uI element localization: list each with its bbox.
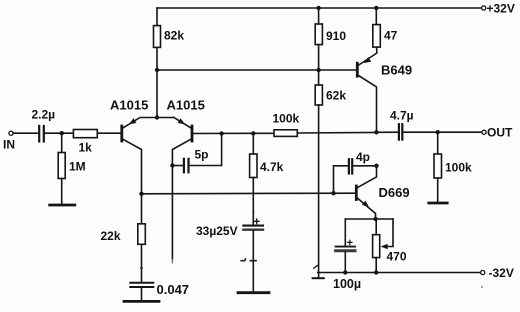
- capacitor C 4p right plate: [351, 159, 353, 173]
- wire 100u bottom lead: [344, 252, 346, 272]
- wire emitter node horizontal: [345, 218, 393, 220]
- resistor R 62k: [315, 85, 322, 105]
- wire 82k riser top: [156, 8, 158, 26]
- resistor R 100k feedback: [274, 130, 297, 137]
- node 100k load top: [436, 130, 440, 134]
- wire 0.047 bottom lead: [141, 288, 143, 300]
- svg-text:100k: 100k: [445, 161, 472, 175]
- node 4.7k top: [251, 131, 255, 135]
- svg-text:82k: 82k: [164, 29, 184, 43]
- artifact plus near 33u: [250, 260, 256, 262]
- resistor R 100k load: [434, 154, 442, 178]
- terminal -32V: [481, 270, 485, 274]
- capacitor C 5p right plate: [187, 159, 189, 173]
- wire 1M bottom lead: [61, 179, 63, 204]
- wire 82k bottom lead: [156, 47, 158, 70]
- svg-text:A1015: A1015: [167, 98, 205, 113]
- svg-text:OUT: OUT: [487, 126, 513, 140]
- resistor R 470 trimmer: [373, 235, 380, 258]
- wire 100u top lead: [344, 219, 346, 246]
- wire 910 top lead: [318, 8, 320, 24]
- capacitor C 33u25V top plate: [243, 225, 263, 227]
- node 910/62k/B649 base: [316, 68, 320, 72]
- wire to 5p left plate: [172, 165, 183, 167]
- blob artifact on 22k lead: [140, 267, 143, 270]
- capacitor C 4p left plate: [348, 159, 350, 173]
- wire top +32V rail: [157, 7, 482, 9]
- wire 62k long lead to -32V rail: [318, 105, 320, 278]
- node input bias junction: [60, 131, 64, 135]
- wire C1 to 1k: [45, 132, 74, 134]
- node top rail / 47: [374, 6, 378, 10]
- svg-text:1M: 1M: [69, 160, 86, 174]
- rail left end bar bottom: [313, 277, 324, 279]
- wire emitter rail horizontal: [157, 69, 357, 71]
- wire output node to 4.7u: [377, 131, 399, 133]
- capacitor C 100u top plate: [336, 246, 355, 248]
- wire emitters horizontal: [157, 117, 174, 119]
- capacitor C 5p left plate: [183, 159, 185, 173]
- wire wiper arm: [383, 219, 393, 247]
- blob artifact on 4.7k lead: [252, 211, 254, 213]
- node 82k/emitter-rail junction: [155, 68, 159, 72]
- node top rail / 910: [316, 6, 320, 10]
- transistor Q3 B649 base bar: [356, 63, 359, 76]
- wire 100k load top lead: [437, 132, 439, 154]
- svg-text:0.047: 0.047: [157, 282, 190, 297]
- svg-text:D669: D669: [379, 185, 410, 200]
- transistor Q4 D669 collector lead: [358, 166, 377, 188]
- ground for 1M: [50, 204, 75, 207]
- svg-text:A1015: A1015: [110, 98, 148, 113]
- wire 33u bottom lead: [252, 231, 254, 291]
- transistor Q2 A1015 collector lead: [172, 139, 192, 260]
- svg-text:470: 470: [387, 250, 407, 264]
- terminal IN: [9, 131, 13, 135]
- wire D669 base line: [142, 192, 357, 195]
- terminal OUT: [482, 130, 486, 134]
- capacitor C 0.047 top plate: [130, 282, 153, 284]
- node 5p left / Q2 collector: [170, 163, 174, 167]
- transistor Q1 A1015 emitter lead: [122, 118, 157, 129]
- node 4p right / D669 collector: [374, 164, 378, 168]
- wire 47 top lead: [375, 8, 377, 25]
- svg-text:33µ25V: 33µ25V: [196, 224, 238, 238]
- svg-text:+32V: +32V: [487, 1, 515, 15]
- transistor Q3 B649 emitter lead: [358, 47, 377, 65]
- svg-text:910: 910: [326, 29, 346, 43]
- wire 1k to Q1 base: [97, 132, 121, 134]
- transistor Q1 A1015 emitter arrow: [129, 118, 136, 124]
- ground for 33u: [238, 291, 269, 294]
- capacitor C 100u plus sign: [348, 240, 352, 244]
- svg-text:100k: 100k: [273, 112, 300, 126]
- capacitor C 33u25V plus sign: [254, 219, 259, 224]
- wire 22k bottom lead: [141, 244, 143, 282]
- wire 100k load bottom lead: [437, 178, 439, 202]
- node 100u / rail: [343, 270, 347, 274]
- svg-text:100µ: 100µ: [333, 277, 361, 291]
- ground for 100k load: [429, 202, 447, 205]
- wire riser to emitters: [156, 70, 158, 118]
- transistor Q4 D669 base bar: [355, 186, 358, 200]
- terminal +32V: [482, 6, 486, 10]
- wire 4.7k bottom to 33u: [252, 178, 254, 225]
- capacitor C 33u25V bottom plate: [243, 228, 263, 230]
- svg-text:22k: 22k: [101, 229, 121, 243]
- resistor R 22k: [138, 224, 146, 245]
- svg-text:4.7µ: 4.7µ: [390, 109, 414, 123]
- wire 4p left lead: [334, 166, 349, 193]
- wire IN to C1: [13, 132, 38, 134]
- svg-text:4p: 4p: [356, 150, 370, 164]
- wire 1M top lead: [61, 133, 63, 152]
- capacitor C 0.047 bottom plate: [130, 286, 153, 288]
- wire 470 bottom lead: [375, 258, 377, 273]
- transistor Q1 A1015 base bar: [120, 126, 123, 141]
- transistor Q1 A1015 collector lead: [122, 139, 142, 224]
- artifact dash near 33u: [241, 259, 245, 261]
- wire 5p right to base line: [189, 134, 221, 166]
- transistor Q3 B649 emitter arrow: [364, 57, 371, 63]
- svg-text:1k: 1k: [79, 141, 93, 155]
- svg-text:4.7k: 4.7k: [260, 160, 284, 174]
- wire 910 bottom lead: [318, 45, 320, 70]
- svg-text:5p: 5p: [195, 147, 209, 161]
- wire 62k top lead: [318, 70, 320, 85]
- node emitter junction: [373, 217, 377, 221]
- transistor Q2 A1015 emitter arrow: [178, 118, 185, 124]
- svg-text:-32V: -32V: [489, 266, 514, 280]
- node 5p tap: [219, 131, 223, 135]
- capacitor C 100u bottom plate: [336, 249, 355, 252]
- svg-text:2.2µ: 2.2µ: [32, 107, 56, 121]
- node output junction: [374, 130, 378, 134]
- ground for 0.047: [124, 300, 159, 303]
- capacitor C1 2.2u left plate: [38, 126, 40, 142]
- wiper arrow into 470: [381, 244, 388, 250]
- transistor Q2 A1015 base bar: [191, 126, 194, 141]
- wire 4.7k top lead: [252, 133, 254, 154]
- resistor R 47: [373, 25, 381, 47]
- node 4p left tap: [331, 191, 335, 195]
- wire 4p right lead: [353, 165, 376, 167]
- svg-text:47: 47: [384, 28, 398, 42]
- wire 100k to output node: [297, 131, 376, 134]
- svg-text:B649: B649: [381, 63, 412, 78]
- node 470 / rail: [374, 270, 378, 274]
- resistor R 910: [315, 24, 322, 45]
- resistor R 82k: [154, 26, 161, 48]
- transistor Q4 D669 emitter lead: [357, 198, 376, 219]
- wire Q2 collector fading tip: [171, 260, 173, 264]
- svg-text:62k: 62k: [326, 89, 346, 103]
- capacitor C 4.7u left plate: [398, 124, 400, 139]
- resistor R 4.7k: [250, 154, 257, 178]
- artifact dot bottom right: [481, 286, 483, 288]
- transistor Q4 D669 emitter arrow: [362, 201, 369, 208]
- node emitters junction: [155, 115, 159, 119]
- capacitor C1 2.2u right plate: [43, 126, 45, 142]
- wire 4.7u to OUT: [403, 131, 482, 133]
- node Q1 collector / 22k: [139, 192, 143, 196]
- transistor Q2 A1015 emitter lead: [174, 118, 192, 129]
- wire 470 top lead: [375, 219, 377, 235]
- resistor R 1M: [58, 153, 65, 179]
- wire Q2 base line to feedback node: [192, 132, 274, 134]
- wire bottom -32V rail: [318, 272, 481, 274]
- svg-text:IN: IN: [3, 138, 15, 152]
- transistor Q3 B649 collector lead: [357, 75, 376, 133]
- rail left end tick top: [314, 265, 318, 268]
- resistor R 1k: [73, 130, 97, 138]
- capacitor C 4.7u right plate: [401, 124, 403, 139]
